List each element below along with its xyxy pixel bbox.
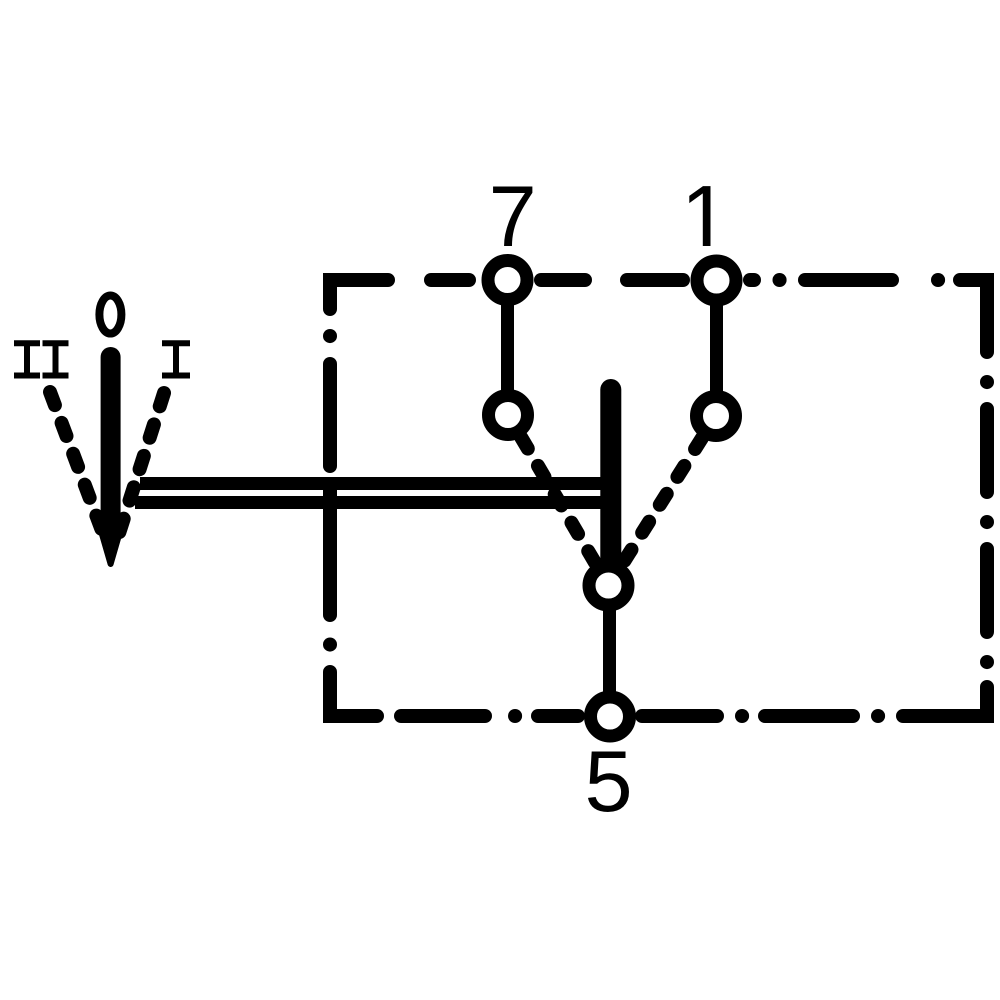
moving contact circle below 7 — [489, 396, 528, 435]
label 0 (lever rest position) — [99, 296, 121, 334]
dashed lever travel to position I — [114, 393, 164, 549]
enclosure bottom-left corner — [330, 672, 377, 716]
enclosure left border dot — [323, 638, 337, 652]
enclosure top border dash — [805, 273, 892, 287]
label I — [162, 343, 190, 375]
enclosure left border dash — [323, 364, 337, 466]
terminal circle 1 — [697, 261, 736, 300]
enclosure left border dot — [323, 329, 337, 343]
enclosure top border dash between terminal 7 and terminal 1 — [541, 273, 585, 287]
dashed contact travel path 1 to common — [618, 438, 702, 570]
dashed contact travel path 7 to common — [521, 437, 600, 571]
terminal circle 7 — [488, 261, 527, 300]
label II left glyph — [14, 343, 40, 375]
enclosure bottom border dot — [871, 709, 885, 723]
dashed lever travel to position II — [50, 392, 107, 544]
enclosure bottom border dash left of terminal 5 — [538, 709, 578, 723]
svg-text:7: 7 — [489, 169, 537, 265]
wire terminal 7 to moving contact — [501, 280, 514, 415]
label 1 — [689, 186, 710, 246]
svg-text:5: 5 — [585, 734, 633, 830]
terminal circle 5 — [591, 697, 630, 736]
wire common contact to terminal 5 — [603, 585, 616, 716]
enclosure bottom border dot — [508, 709, 522, 723]
mechanical link double line upper — [140, 477, 618, 490]
enclosure right border dot — [980, 375, 994, 389]
enclosure left border dash — [323, 484, 337, 615]
enclosure top border dot — [931, 273, 945, 287]
enclosure bottom border dot — [735, 709, 749, 723]
wire terminal 1 to moving contact — [710, 280, 723, 416]
enclosure bottom border dash — [765, 709, 853, 723]
common pole contact circle — [589, 566, 628, 605]
actuator bar — [600, 390, 621, 571]
enclosure top border dash — [627, 273, 683, 287]
enclosure right border dash — [980, 549, 994, 632]
enclosure top border dash — [431, 273, 469, 287]
label II right glyph — [43, 343, 69, 375]
lever tip cone — [100, 526, 122, 564]
enclosure top border dot — [773, 273, 787, 287]
enclosure right border dot — [980, 655, 994, 669]
mechanical link double line lower — [135, 496, 618, 509]
moving contact circle below 1 — [697, 397, 736, 436]
enclosure bottom-right corner — [903, 687, 987, 716]
enclosure bottom border dash right of terminal 5 — [642, 709, 717, 723]
enclosure bottom border dash — [401, 709, 485, 723]
lever shaft (position 0 pointer) — [101, 357, 121, 535]
enclosure top border stub right of terminal 1 — [750, 273, 754, 287]
enclosure top border left corner — [330, 280, 388, 309]
enclosure top-right corner — [960, 280, 987, 352]
enclosure right border dash — [980, 409, 994, 492]
enclosure right border dot — [980, 515, 994, 529]
